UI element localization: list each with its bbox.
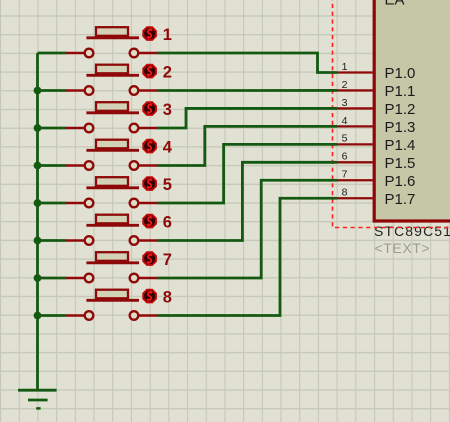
pin 6 wire of U1 — [337, 161, 373, 163]
ground — [18, 390, 57, 408]
svg-text:P1.2: P1.2 — [385, 101, 416, 118]
switch SW4 (push button) — [66, 140, 158, 170]
svg-text:4: 4 — [342, 115, 348, 127]
wire: bus to SW4 left terminal — [38, 164, 67, 167]
svg-text:5: 5 — [163, 176, 172, 194]
wire: bus to SW8 left terminal — [38, 314, 67, 317]
svg-text:P1.3: P1.3 — [385, 119, 416, 136]
node: junction dot row 4 — [34, 162, 42, 170]
wire: SW4 to pin 4 — [158, 126, 337, 165]
svg-text:2: 2 — [163, 63, 172, 81]
actuator icon of SW3 — [142, 101, 157, 116]
svg-text:2: 2 — [342, 79, 348, 91]
pin 3 wire of U1 — [337, 107, 373, 109]
node: junction dot row 3 — [34, 124, 42, 132]
actuator icon of SW2 — [142, 64, 157, 79]
wire: SW3 to pin 3 — [158, 108, 337, 128]
svg-text:6: 6 — [342, 151, 348, 163]
actuator icon of SW4 — [142, 139, 157, 154]
wire: SW2 to pin 2 — [158, 89, 337, 92]
wire: bus to SW1 left terminal — [38, 52, 67, 55]
pin 2 wire of U1 — [337, 89, 373, 91]
svg-text:8: 8 — [342, 187, 348, 199]
svg-text:4: 4 — [163, 138, 173, 156]
pin 5 wire of U1 — [337, 143, 373, 145]
svg-text:7: 7 — [342, 169, 348, 181]
svg-text:P1.5: P1.5 — [385, 155, 416, 172]
actuator icon of SW8 — [142, 289, 157, 304]
actuator icon of SW1 — [142, 26, 157, 41]
switch SW1 (push button) — [66, 27, 158, 57]
node: junction dot row 2 — [34, 87, 42, 95]
svg-text:P1.0: P1.0 — [385, 65, 416, 82]
node: junction dot row 7 — [34, 274, 42, 282]
wire: SW7 to pin 7 — [158, 180, 337, 278]
svg-text:EA: EA — [385, 0, 405, 9]
pin 1 wire of U1 — [337, 71, 373, 73]
op-amp U1 body STC89C51 — [374, 0, 450, 221]
svg-text:3: 3 — [163, 101, 172, 119]
selection box (red dashed) around U1 — [333, 0, 450, 228]
switch SW3 (push button) — [66, 102, 158, 132]
svg-text:7: 7 — [163, 251, 172, 269]
svg-text:6: 6 — [163, 213, 172, 231]
wire: bus to SW5 left terminal — [38, 202, 67, 205]
switch SW7 (push button) — [66, 252, 158, 282]
wire: SW6 to pin 6 — [158, 162, 337, 240]
svg-text:P1.1: P1.1 — [385, 83, 416, 100]
node: junction dot row 5 — [34, 199, 42, 207]
svg-text:1: 1 — [342, 61, 348, 73]
pin 8 wire of U1 — [337, 197, 373, 199]
switch SW8 (push button) — [66, 290, 158, 320]
svg-text:P1.7: P1.7 — [385, 191, 416, 208]
svg-text:1: 1 — [163, 26, 172, 44]
pin 7 wire of U1 — [337, 179, 373, 181]
actuator icon of SW6 — [142, 214, 157, 229]
svg-text:5: 5 — [342, 133, 348, 145]
wire: bus to SW2 left terminal — [38, 89, 67, 92]
switch SW6 (push button) — [66, 215, 158, 245]
svg-text:STC89C51: STC89C51 — [374, 223, 450, 239]
switch SW5 (push button) — [66, 177, 158, 207]
pin 4 wire of U1 — [337, 125, 373, 127]
wire: bus to SW6 left terminal — [38, 239, 67, 242]
node: junction dot row 6 — [34, 237, 42, 245]
wire: SW1 to pin 1 — [158, 53, 337, 73]
node: junction dot row 8 — [34, 312, 42, 320]
wire: SW8 to pin 8 — [158, 198, 337, 315]
actuator icon of SW5 — [142, 176, 157, 191]
wire: left vertical bus to ground — [36, 53, 39, 390]
wire: bus to SW3 left terminal — [38, 127, 67, 130]
svg-text:P1.4: P1.4 — [385, 137, 416, 154]
svg-text:8: 8 — [163, 288, 172, 306]
switch SW2 (push button) — [66, 65, 158, 95]
svg-text:<TEXT>: <TEXT> — [375, 240, 431, 256]
svg-text:3: 3 — [342, 97, 348, 109]
actuator icon of SW7 — [142, 251, 157, 266]
wire: bus to SW7 left terminal — [38, 277, 67, 280]
wire: SW5 to pin 5 — [158, 144, 337, 203]
svg-text:P1.6: P1.6 — [385, 173, 416, 190]
